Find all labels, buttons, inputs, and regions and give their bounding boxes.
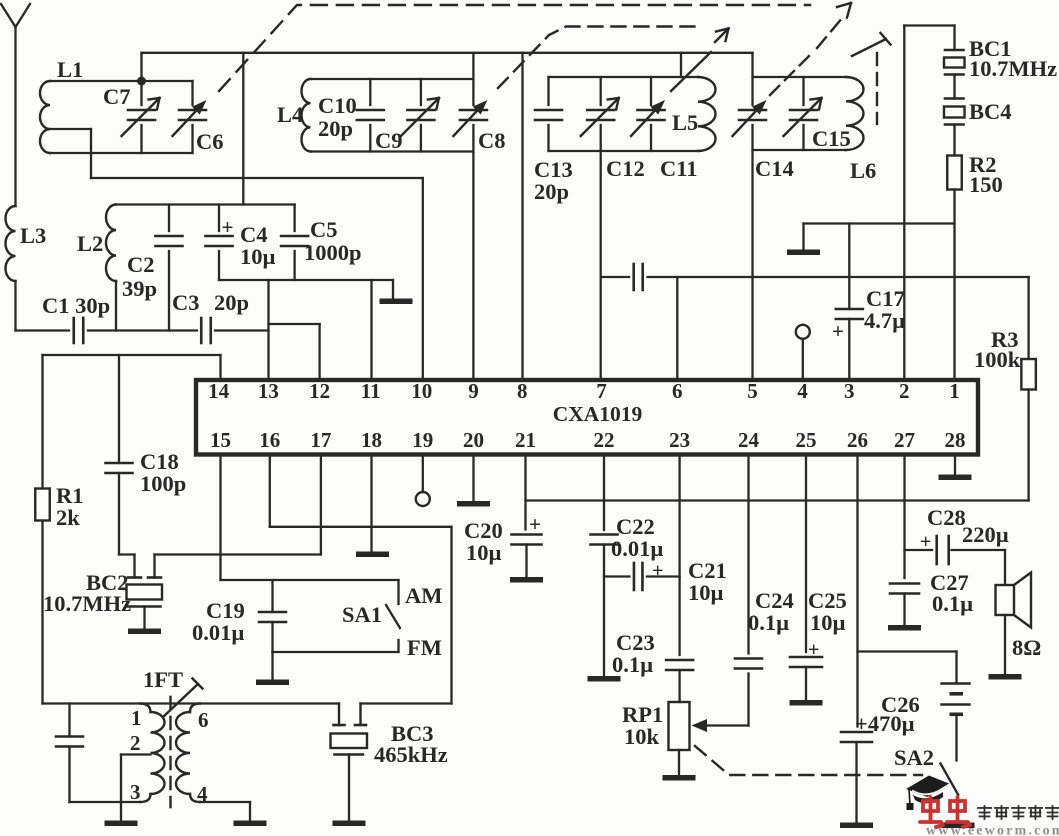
svg-text:L2: L2 xyxy=(77,231,103,256)
svg-text:0.01µ: 0.01µ xyxy=(192,620,244,645)
ground pin28 xyxy=(939,454,972,480)
wire BC2 to pin17 xyxy=(155,555,321,578)
wire FM to C19 xyxy=(273,651,399,653)
capacitor C15 (variable) xyxy=(784,77,851,151)
svg-text:BC4: BC4 xyxy=(969,99,1012,124)
capacitor C20 (electrolytic) xyxy=(464,454,542,578)
node L1-C7 junction xyxy=(137,77,146,86)
tuning gang dashed line B xyxy=(498,27,729,89)
switch SA1 xyxy=(342,580,443,660)
svg-text:2: 2 xyxy=(899,379,910,403)
inductor L5 xyxy=(549,77,716,151)
capacitor C4 (electrolytic) xyxy=(206,205,276,281)
wire L2 top rail xyxy=(116,203,295,205)
svg-text:0.1µ: 0.1µ xyxy=(932,591,973,616)
svg-text:20p: 20p xyxy=(318,116,353,141)
ground BC3 xyxy=(333,755,366,827)
capacitor C22 xyxy=(591,454,664,677)
switch SA2 xyxy=(894,745,958,823)
svg-text:L1: L1 xyxy=(57,57,83,82)
antenna xyxy=(1,4,30,206)
wire coupling cap to R3 xyxy=(648,277,1029,359)
wire R3 to Vcc rail xyxy=(1027,390,1029,501)
svg-text:10µ: 10µ xyxy=(688,580,724,605)
svg-text:+: + xyxy=(222,215,234,239)
svg-text:100k: 100k xyxy=(974,347,1021,372)
svg-text:18: 18 xyxy=(361,428,382,452)
capacitor C21 (electrolytic) xyxy=(604,558,727,605)
wire BC4 to R2 xyxy=(953,125,955,156)
svg-text:1000p: 1000p xyxy=(304,240,362,265)
wire C4 C5 bottom rail xyxy=(219,279,393,281)
ground 1FT primary xyxy=(105,802,138,826)
wire RP1 wiper xyxy=(692,719,749,732)
wire pin26 vertical xyxy=(856,454,858,727)
svg-text:24: 24 xyxy=(738,428,760,452)
capacitor C3 xyxy=(172,290,249,343)
transformer 1FT secondary xyxy=(176,704,208,807)
wire pin17 vertical xyxy=(320,454,322,555)
wire C3 to pin13 line xyxy=(215,329,269,331)
wire pin14 xyxy=(43,355,221,380)
mechanical link RP1-SA2 dashed xyxy=(695,746,922,775)
watermark bug chars xyxy=(920,797,970,827)
svg-text:C8: C8 xyxy=(478,128,506,153)
capacitor C19 xyxy=(192,580,286,652)
wire pin7 to coupling cap xyxy=(602,276,630,278)
svg-text:C7: C7 xyxy=(103,84,131,109)
capacitor coupling xyxy=(634,264,643,290)
svg-text:26: 26 xyxy=(847,428,868,452)
capacitor near 1FT xyxy=(56,704,83,803)
capacitor C26 (electrolytic) xyxy=(841,692,920,823)
capacitor C6 (variable) xyxy=(173,81,224,154)
svg-text:C2: C2 xyxy=(127,252,155,277)
resistor R3 xyxy=(974,327,1036,390)
svg-text:23: 23 xyxy=(669,428,690,452)
svg-text:L5: L5 xyxy=(672,110,698,135)
L6 tuning dashes xyxy=(876,53,878,124)
resistor R2 xyxy=(947,152,1003,197)
svg-text:20: 20 xyxy=(463,428,484,452)
svg-text:150: 150 xyxy=(969,172,1003,197)
svg-text:www.eeworm.com: www.eeworm.com xyxy=(926,824,1059,836)
speaker 8ohm xyxy=(996,550,1042,675)
transformer 1FT core xyxy=(169,697,171,807)
svg-text:L3: L3 xyxy=(20,223,46,248)
svg-text:3: 3 xyxy=(844,379,855,403)
svg-text:C3: C3 xyxy=(172,290,200,315)
capacitor C24 xyxy=(735,454,794,726)
svg-text:C11: C11 xyxy=(660,156,698,181)
tuning gang dashed line A xyxy=(219,3,851,91)
svg-text:20p: 20p xyxy=(214,290,249,315)
capacitor C5 xyxy=(281,205,361,281)
capacitor C17 (electrolytic) xyxy=(832,224,905,381)
svg-text:39p: 39p xyxy=(122,276,157,301)
svg-text:6: 6 xyxy=(672,379,683,403)
inductor L1 xyxy=(40,57,193,178)
inductor L4 xyxy=(277,79,473,152)
svg-text:7: 7 xyxy=(596,379,607,403)
crystal BC4 xyxy=(944,99,1012,125)
svg-text:0.01µ: 0.01µ xyxy=(611,536,663,561)
svg-text:100p: 100p xyxy=(140,471,186,496)
ground C27 xyxy=(888,625,921,631)
transformer 1FT trimmer arrow xyxy=(143,667,203,716)
svg-text:+: + xyxy=(832,319,844,343)
capacitor C7 (variable) xyxy=(103,81,160,153)
wire pin23 vertical xyxy=(678,454,680,655)
svg-text:2k: 2k xyxy=(56,505,80,530)
svg-text:L6: L6 xyxy=(850,158,876,183)
svg-text:L4: L4 xyxy=(277,102,303,127)
inductor L3 xyxy=(6,206,47,281)
svg-text:1: 1 xyxy=(949,379,960,403)
tuning gang dashes C14 xyxy=(770,52,813,95)
capacitor C1 xyxy=(42,293,110,343)
svg-text:+: + xyxy=(808,639,819,661)
svg-text:10.7MHz: 10.7MHz xyxy=(969,56,1057,81)
wire R2 to pin1 xyxy=(953,190,955,381)
capacitor C28 (electrolytic) xyxy=(905,505,1009,564)
svg-text:5: 5 xyxy=(747,379,758,403)
svg-text:C1 30p: C1 30p xyxy=(42,293,110,318)
svg-text:+470µ: +470µ xyxy=(855,711,915,736)
watermark url xyxy=(926,824,1059,836)
svg-text:AM: AM xyxy=(405,583,443,608)
svg-text:10: 10 xyxy=(411,379,432,403)
svg-text:+: + xyxy=(920,531,931,553)
wire Vcc rail xyxy=(526,499,1029,501)
wire 1FT tap pin2 xyxy=(121,755,151,803)
svg-text:220µ: 220µ xyxy=(962,522,1009,547)
wire 704 line right xyxy=(361,702,452,704)
ground C25 xyxy=(790,700,823,706)
ground C5 rail xyxy=(380,280,413,304)
svg-text:10µ: 10µ xyxy=(466,540,502,565)
svg-text:C14: C14 xyxy=(755,156,794,181)
wire antenna to C1 xyxy=(16,281,70,331)
ground RP1 xyxy=(663,750,696,781)
capacitor C18 xyxy=(106,355,187,555)
svg-text:FM: FM xyxy=(407,635,442,660)
svg-text:SA1: SA1 xyxy=(342,602,382,627)
svg-text:6: 6 xyxy=(198,708,209,732)
svg-text:11: 11 xyxy=(361,379,381,403)
svg-text:C15: C15 xyxy=(812,126,851,151)
capacitor C25 (electrolytic) xyxy=(790,454,847,701)
capacitor C12 (variable) xyxy=(581,77,645,181)
potentiometer RP1 xyxy=(622,702,690,750)
svg-text:25: 25 xyxy=(796,428,817,452)
pin numbers xyxy=(208,379,965,452)
transformer 1FT primary xyxy=(130,704,165,805)
wire C1 to C3 xyxy=(88,329,197,331)
wire top rail xyxy=(142,52,753,54)
inductor L2 xyxy=(77,205,116,331)
svg-text:1FT: 1FT xyxy=(143,667,183,692)
svg-text:22: 22 xyxy=(594,428,615,452)
wire pin2 vertical xyxy=(904,26,954,381)
ground C20 xyxy=(510,577,543,583)
watermark site name xyxy=(978,806,1059,819)
svg-text:21: 21 xyxy=(515,428,536,452)
wire pin12 jog xyxy=(269,324,320,380)
svg-text:+: + xyxy=(652,560,663,582)
ground C26 xyxy=(840,823,873,829)
svg-text:0.1µ: 0.1µ xyxy=(612,652,653,677)
wire pin9 vertical xyxy=(472,53,474,380)
ground top right rail xyxy=(787,224,820,256)
svg-text:0.1µ: 0.1µ xyxy=(748,610,789,635)
svg-text:8: 8 xyxy=(517,379,528,403)
ground pin18 xyxy=(356,454,389,557)
svg-text:C12: C12 xyxy=(606,156,645,181)
L6 trimmer arrow xyxy=(852,33,891,56)
svg-text:4.7µ: 4.7µ xyxy=(864,308,905,333)
svg-text:12: 12 xyxy=(309,379,330,403)
svg-text:15: 15 xyxy=(210,428,231,452)
svg-text:10k: 10k xyxy=(624,724,660,749)
wire pin13 vertical xyxy=(267,280,269,380)
wire ground rail top right xyxy=(804,222,955,224)
capacitor C10 xyxy=(318,79,384,152)
svg-text:9: 9 xyxy=(468,379,479,403)
svg-text:C10: C10 xyxy=(318,93,357,118)
wire pin16 route xyxy=(270,454,452,704)
ground SA2 xyxy=(942,823,975,829)
crystal BC2 xyxy=(43,570,162,616)
svg-text:1: 1 xyxy=(131,706,142,730)
svg-text:20p: 20p xyxy=(534,179,569,204)
svg-text:SA2: SA2 xyxy=(894,745,934,770)
ground C19 xyxy=(256,652,289,685)
capacitor C9 (variable) xyxy=(375,79,439,153)
battery xyxy=(942,684,970,761)
capacitor C13 xyxy=(534,77,573,204)
svg-text:3: 3 xyxy=(130,780,141,804)
capacitor C2 xyxy=(122,205,183,331)
wire 1FT secondary bottom xyxy=(200,802,250,821)
wire C18 to BC2 xyxy=(119,555,135,578)
wire pin6 vertical xyxy=(676,277,678,380)
svg-text:27: 27 xyxy=(894,428,915,452)
svg-text:14: 14 xyxy=(208,379,230,403)
wire 1FT primary bottom xyxy=(70,801,141,803)
svg-text:4: 4 xyxy=(797,379,808,403)
svg-text:10µ: 10µ xyxy=(240,244,276,269)
svg-text:465kHz: 465kHz xyxy=(374,742,448,767)
wire 704 line left xyxy=(43,702,340,704)
crystal BC3 xyxy=(331,704,448,768)
wire L1 bottom to pin10 xyxy=(91,178,423,380)
wire stub rail to L2 rail xyxy=(242,53,244,205)
watermark logo cap xyxy=(906,776,949,811)
svg-text:28: 28 xyxy=(945,428,966,452)
capacitor C14 (variable) xyxy=(733,100,794,181)
wire pin5 vertical xyxy=(751,53,753,380)
wire pin8 vertical xyxy=(521,53,523,380)
svg-text:19: 19 xyxy=(412,428,433,452)
ground C22 xyxy=(588,676,621,682)
wire BC1 to BC4 xyxy=(953,75,955,99)
svg-text:C9: C9 xyxy=(375,128,403,153)
capacitor C27 xyxy=(890,570,973,626)
wire pin27 vertical xyxy=(903,454,905,578)
wire pin7 vertical xyxy=(600,151,602,380)
svg-text:16: 16 xyxy=(259,428,280,452)
wire pin15 to AM xyxy=(221,454,399,580)
wire pin11 vertical xyxy=(370,280,372,380)
svg-text:2: 2 xyxy=(130,731,141,755)
svg-text:13: 13 xyxy=(258,379,279,403)
svg-text:C28: C28 xyxy=(927,505,966,530)
crystal BC1 xyxy=(944,36,1057,81)
resistor R1 xyxy=(35,355,83,704)
wire pin26 to battery xyxy=(858,652,957,684)
svg-text:CXA1019: CXA1019 xyxy=(553,402,643,426)
ground BC2 xyxy=(128,607,161,635)
svg-text:8Ω: 8Ω xyxy=(1012,635,1041,660)
wire stub rail to mid tank xyxy=(680,53,682,77)
op-amp U1 CXA1019 IC body xyxy=(196,380,978,455)
ground 1FT secondary xyxy=(234,821,267,827)
svg-text:C5: C5 xyxy=(310,217,338,242)
svg-text:17: 17 xyxy=(310,428,331,452)
inductor L6 xyxy=(753,77,877,183)
svg-text:10µ: 10µ xyxy=(810,610,846,635)
ground pin20 xyxy=(457,454,490,507)
terminal pin4 circle xyxy=(796,325,810,380)
wire L1 junction to top rail xyxy=(140,53,142,81)
svg-text:C6: C6 xyxy=(196,129,224,154)
capacitor C23 xyxy=(612,630,693,702)
svg-text:10.7MHz: 10.7MHz xyxy=(43,591,131,616)
svg-text:+: + xyxy=(529,512,541,536)
capacitor C8 (variable) xyxy=(453,100,505,153)
terminal pin19 circle xyxy=(416,454,430,506)
capacitor C11 (variable) xyxy=(631,52,711,181)
ground speaker xyxy=(989,674,1022,680)
